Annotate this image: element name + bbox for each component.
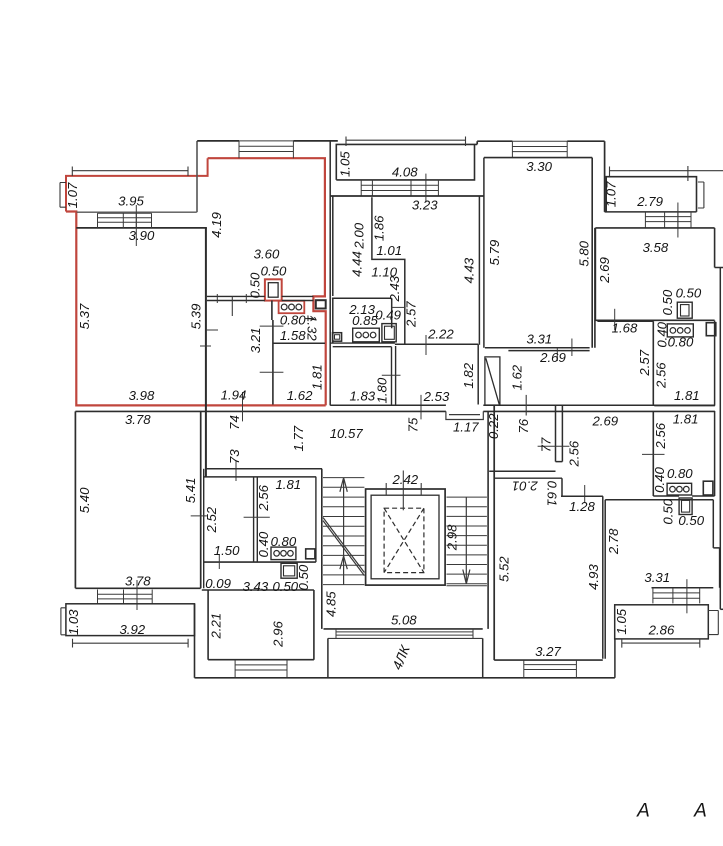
elevator shaft inner [371,495,439,579]
svg-text:3.31: 3.31 [644,570,670,585]
svg-text:3.23: 3.23 [412,197,438,212]
outer wall right edge [719,268,721,610]
ticks on bedroom bottom wall [217,294,246,303]
svg-text:1.62: 1.62 [510,364,525,390]
window room 2.96 [235,660,287,678]
dim tick 3.58 [677,203,679,238]
stair window sill [328,637,483,639]
red outline: top-left balcony top+left [66,158,208,211]
wall right of 5.40 inner [203,469,205,589]
tick 2.52 [191,515,207,517]
svg-text:4.08: 4.08 [392,164,418,179]
svg-text:2.52: 2.52 [204,506,219,533]
stair right wall [487,411,489,629]
door tick 2.69 b [556,348,558,361]
svg-text:0.09: 0.09 [205,576,231,591]
lower right rooms bottom wall [653,495,714,497]
svg-text:0.50: 0.50 [247,272,262,298]
svg-text:76: 76 [516,418,531,433]
svg-text:А: А [636,801,650,822]
room B right wall [315,477,317,562]
svg-text:1.83: 1.83 [349,388,375,403]
stair right bottom step [447,585,487,587]
balcony bottom wall [77,211,197,213]
room 3.58 walls [595,228,723,320]
room 2.21/2.96 walls [202,590,314,660]
dim tick 3.31 right [686,579,688,613]
red kitchen duct box 0.50x0.50 [265,279,282,300]
elevator car dashed box with X [384,508,424,572]
wall between rooms 2.52 and 1.81 [254,477,258,562]
svg-text:1.17: 1.17 [453,420,479,435]
svg-text:3.78: 3.78 [125,573,151,588]
svg-text:4.19: 4.19 [209,212,224,238]
big room bottom double wall [485,348,590,351]
svg-text:3.27: 3.27 [535,644,561,659]
walls: middle kitchen top and right [332,298,392,328]
vent square lower apt [306,549,315,559]
svg-text:3.78: 3.78 [125,412,151,427]
svg-text:2.57: 2.57 [637,349,652,376]
door tick bedroom [231,296,233,316]
wall: lobby/bath separation [273,342,325,344]
svg-text:2.56: 2.56 [653,422,668,449]
outer wall top (right of bedroom window) [293,140,337,142]
svg-text:4.43: 4.43 [462,257,477,283]
svg-text:1.07: 1.07 [603,181,618,207]
(dup) notch wall [561,495,603,497]
window 2.79 [645,212,691,228]
svg-text:5.79: 5.79 [487,239,502,265]
svg-text:2.69: 2.69 [591,413,618,428]
svg-text:5.39: 5.39 [188,303,203,329]
dim bracket right 1.07 [698,182,704,208]
entrance porch walls [328,638,483,677]
stove box right lower [667,483,692,495]
svg-text:2.57: 2.57 [404,301,419,328]
elevator shaft outer [366,489,446,585]
wall: bath right double [392,346,396,405]
vent square right upper [706,323,716,336]
door tick 1.28 [584,485,586,503]
svg-text:0.85: 0.85 [352,313,378,328]
window 3.27 [524,660,577,678]
balcony top-center box [336,144,477,180]
svg-text:3.98: 3.98 [129,388,155,403]
outer bay wall top center-right [477,141,604,144]
svg-text:2.00: 2.00 [351,222,366,249]
right rooms outer wall [714,321,716,497]
wall hall right [652,321,654,405]
outer wall bottom-right jog [720,608,723,610]
svg-text:77: 77 [538,437,553,452]
svg-text:1.80: 1.80 [374,377,389,403]
dim line 3.92 [73,639,189,648]
dim tick 3.23 [425,174,427,203]
svg-text:2.96: 2.96 [271,621,286,648]
svg-text:0.50: 0.50 [661,498,676,524]
svg-text:5.40: 5.40 [77,487,92,513]
svg-text:5.41: 5.41 [183,478,198,504]
door tick 1.50 [218,555,220,569]
tick 73 [235,460,237,481]
svg-text:2.69: 2.69 [539,350,566,365]
svg-text:4.44: 4.44 [349,251,364,277]
svg-text:0.50: 0.50 [660,289,675,315]
tick 2.56 crossing stub wall [538,445,570,447]
stair up arrow top [340,478,347,585]
svg-text:4.93: 4.93 [586,564,601,590]
central double wall lower line [75,410,715,412]
walls: middle hall L-shape [372,197,405,343]
stove burners [281,304,287,310]
svg-text:0.50: 0.50 [676,286,702,301]
window bedroom 3.60 [239,141,293,158]
hall top wall [597,320,653,322]
dim line 4.08 top [346,137,466,147]
room 5.52 top edge [495,477,562,479]
svg-text:2.56: 2.56 [256,484,271,511]
svg-text:3.21: 3.21 [248,328,263,354]
stair left wall [321,469,323,629]
svg-text:1.81: 1.81 [673,411,699,426]
balcony 1.03/3.92 [66,604,195,636]
wall: living room top [76,227,207,229]
shaft middle inner [385,326,395,339]
svg-text:2.98: 2.98 [445,524,460,551]
wall left of room 5.52 [493,405,495,660]
svg-text:74: 74 [227,415,242,430]
corridor bottom double wall [204,469,322,477]
shaft 0.50 room 3.58 [677,302,692,318]
svg-text:1.77: 1.77 [291,425,306,451]
svg-text:2.43: 2.43 [387,275,402,302]
dim tick 3.90 [135,205,137,246]
red outline: bedroom top, right wall with vent jog [208,158,326,405]
svg-text:5.37: 5.37 [77,303,92,329]
door ticks corridor wall [200,330,218,346]
svg-text:3.95: 3.95 [118,193,144,208]
svg-text:1.05: 1.05 [338,151,353,177]
wall: bath left [272,320,274,405]
stair down arrow [463,497,470,584]
svg-text:0.80: 0.80 [668,334,694,349]
dim ticks 2.42 [386,483,421,495]
svg-text:2.01: 2.01 [512,478,539,493]
wall: red apt right neighbor double [330,141,333,406]
stairs left flight steps [323,478,364,585]
svg-text:0.61: 0.61 [544,481,559,507]
stair bottom outer wall [324,628,483,630]
svg-text:1.81: 1.81 [310,364,325,390]
balcony top-right bottom wall [605,211,697,213]
wall: kitchen/bath separation double [330,343,395,347]
niche window 1.17 [446,411,483,419]
svg-text:1.07: 1.07 [65,182,80,208]
svg-text:1.01: 1.01 [376,243,402,258]
wall stub below duct [271,301,273,321]
shaft 0.50 lower apt [281,563,297,578]
shaft 0.50 right lower [679,498,692,515]
svg-text:0.40: 0.40 [652,467,667,493]
wall right of top-left balcony [196,141,198,212]
double wall stub below center [556,405,563,462]
svg-text:0.49: 0.49 [375,307,401,322]
svg-text:3.31: 3.31 [526,331,552,346]
svg-text:0.80: 0.80 [271,534,297,549]
wall below window 4.08 [330,195,484,197]
svg-text:4.85: 4.85 [323,591,338,617]
door tick room A/B [244,516,270,518]
shaft 0.50 inner [681,305,690,316]
svg-text:2.79: 2.79 [636,194,663,209]
svg-text:0.80: 0.80 [280,312,306,327]
stair window [336,629,473,639]
red stove box [279,301,305,313]
svg-text:0.80: 0.80 [667,466,693,481]
wall: bedroom bottom double [207,296,314,300]
red outline: apartment left wall and bottom [66,212,326,406]
dim line 3.95 with end ticks [72,167,188,177]
building bottom outline [195,677,615,679]
double wall left of big room [479,158,484,348]
rooms A/B bottom wall [204,561,316,563]
wall rooms 2.69/1.81 lower [652,411,654,496]
svg-text:1.32: 1.32 [304,315,319,341]
svg-text:1.03: 1.03 [66,609,81,635]
svg-text:75: 75 [406,417,421,432]
wall: corridor left / living right [205,228,207,477]
vent square right lower [703,481,713,495]
svg-text:0.50: 0.50 [296,564,311,590]
upper right room bottom wall [654,405,715,407]
outer wall right of big room [604,141,606,212]
outer wall top (left of bedroom window) [197,140,239,142]
svg-text:А: А [693,801,707,822]
svg-text:3.92: 3.92 [119,622,145,637]
stove box lower apt [271,547,296,560]
shaft 0.50 right lower inner [682,500,690,512]
dim bracket right 1.05 [708,611,718,635]
svg-text:2.78: 2.78 [606,528,621,555]
svg-text:0.50: 0.50 [261,263,287,278]
vent square black (red apt) [316,300,326,308]
room 5.52 bottom wall [494,659,603,661]
svg-text:3.60: 3.60 [254,246,280,261]
door tick 2.53 room [420,395,422,420]
svg-text:0.50: 0.50 [272,579,298,594]
dim leader 2.42 [402,471,404,511]
svg-text:3.58: 3.58 [643,240,669,255]
shaft 0.50 lower inner [284,566,295,576]
tick 0.49 [392,306,405,308]
svg-text:1.94: 1.94 [221,387,247,402]
svg-text:3.90: 3.90 [129,228,155,243]
shaft middle kitchen [382,324,396,342]
svg-text:0.40: 0.40 [256,531,271,557]
big room top and right walls [484,158,595,348]
door tick 2.22 [425,335,427,355]
door tick bath [382,374,401,376]
door tick lower rooms [642,453,665,455]
vent duct parallelogram [485,357,500,405]
stove box right upper [667,324,693,337]
svg-text:2.86: 2.86 [648,622,675,637]
svg-text:2.56: 2.56 [566,440,581,467]
corridor wall above 5.52 [489,470,555,472]
svg-text:2.21: 2.21 [208,613,223,640]
room 5.40 walls [75,411,200,588]
svg-text:1.81: 1.81 [275,477,301,492]
svg-text:1.58: 1.58 [280,328,306,343]
svg-text:2.69: 2.69 [597,257,612,284]
svg-text:10.57: 10.57 [330,426,364,441]
window 4.08 [361,180,438,196]
wall right of 5.52 double [603,496,605,659]
svg-text:3.43: 3.43 [243,579,269,594]
wall below balcony 2.86 left [614,639,616,678]
room 5.52 entry notch [561,478,603,496]
dim bracket 1.07 left [60,183,66,208]
svg-text:1.81: 1.81 [674,388,700,403]
svg-text:73: 73 [227,449,242,464]
stove middle burners box [353,328,380,342]
stair break diagonal double line [323,518,364,576]
svg-text:2.56: 2.56 [653,362,668,389]
room 3.58 bottom wall [595,319,714,321]
wall: wc right [477,344,479,404]
balcony 2.86/1.05 [615,605,709,639]
svg-text:5.08: 5.08 [391,613,417,628]
svg-text:1.50: 1.50 [214,543,240,558]
dim line 2.86 [622,639,700,648]
leader arrow 0.80 [306,316,314,321]
svg-text:5.80: 5.80 [577,240,592,266]
svg-text:1.05: 1.05 [614,608,629,634]
svg-text:1.68: 1.68 [612,321,638,336]
wall right of balcony 3.92 [194,604,196,678]
tick 74 [242,392,244,421]
window 3.90 [98,213,152,228]
vent square middle [333,333,342,342]
dim tick 3.78/3.92 [136,580,138,610]
window 3.31 right [653,588,700,604]
svg-text:1.62: 1.62 [287,388,313,403]
svg-text:0.22: 0.22 [486,413,501,439]
door tick 1.68 [614,309,616,330]
balcony top-right box [606,177,696,212]
room 2.78/4.93 top and right walls [605,500,719,588]
door tick room 1.62 [525,395,527,416]
kitchen duct inner box [268,283,278,298]
wall: wc top [395,343,478,345]
svg-text:2.42: 2.42 [391,472,418,487]
room 2.78 bottom wall [652,587,714,589]
window room 5.40 [98,590,153,604]
svg-text:0.50: 0.50 [678,513,704,528]
svg-text:1.82: 1.82 [461,362,476,388]
svg-text:1.86: 1.86 [371,215,386,241]
stairs right flight steps [447,497,487,584]
svg-text:2.53: 2.53 [423,389,450,404]
dim bracket 1.03 [61,608,66,635]
central double wall upper line [330,404,715,406]
door tick 2.69 [571,339,573,357]
stair up arrow lower head [340,556,347,569]
window 3.30 [512,141,567,157]
svg-text:3.30: 3.30 [526,159,552,174]
dim line 2.79 [610,166,723,181]
svg-text:5.52: 5.52 [497,556,512,582]
door opening ticks bath wall [260,326,284,372]
svg-text:1.28: 1.28 [569,499,595,514]
svg-text:2.22: 2.22 [427,326,454,341]
